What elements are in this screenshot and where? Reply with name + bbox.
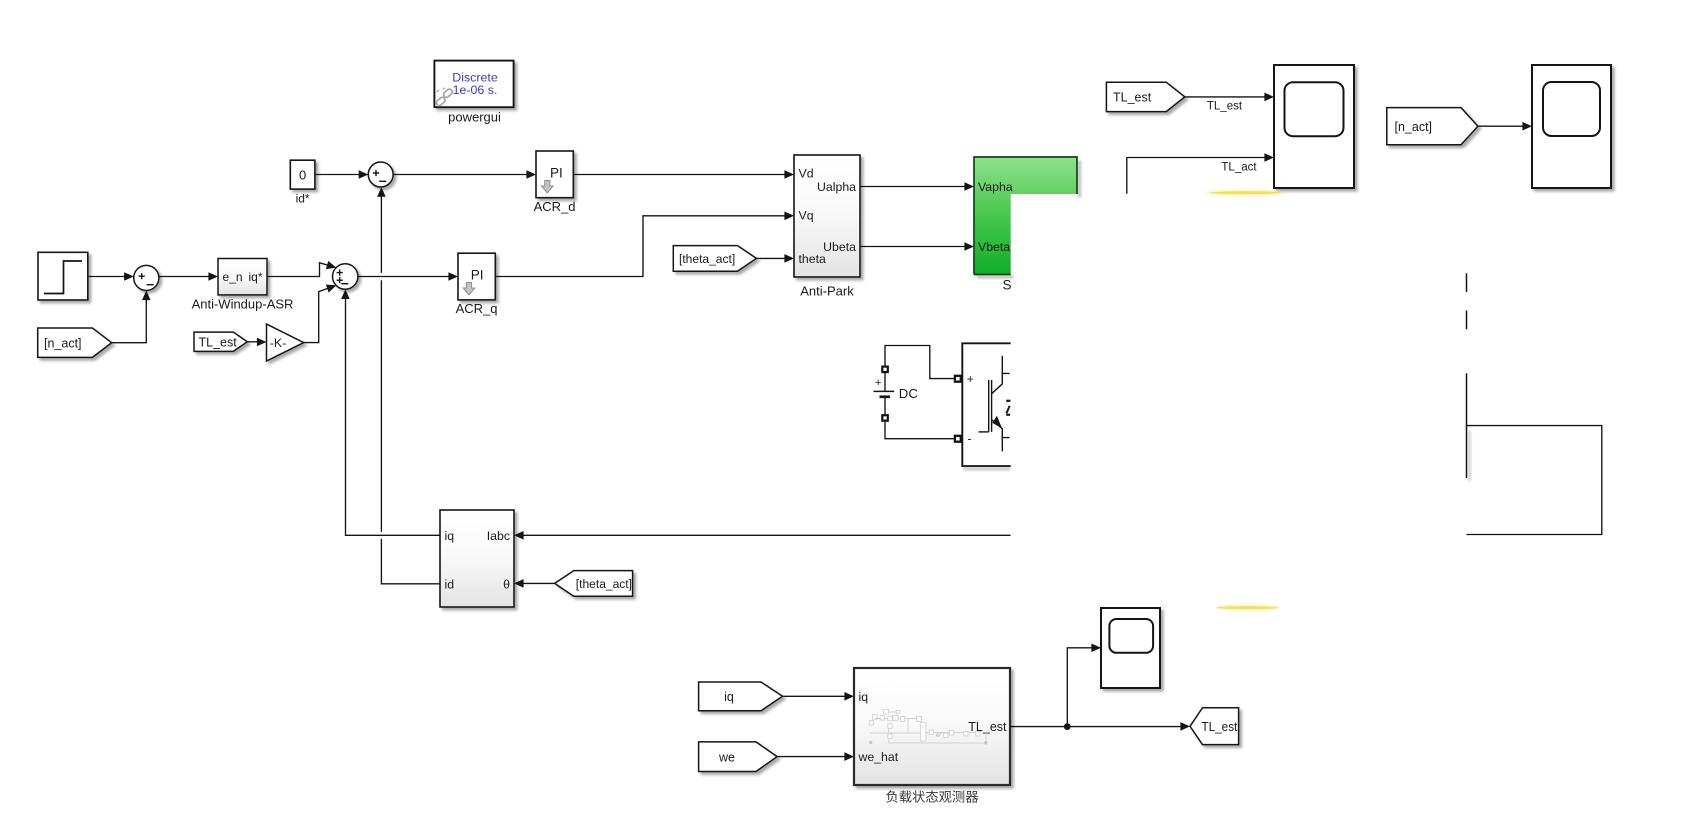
svg-text:theta: theta xyxy=(799,252,827,266)
wire observer TL_est out -> junction -> goto tag xyxy=(1010,726,1181,728)
svg-text:S: S xyxy=(1002,278,1011,293)
From tag TL_est (left) xyxy=(194,332,247,351)
svg-text:Vq: Vq xyxy=(799,208,814,222)
svg-text:TL_est: TL_est xyxy=(1113,91,1152,105)
svg-text:负载状态观测器: 负载状态观测器 xyxy=(885,790,978,805)
subsystem Anti-Park xyxy=(794,155,860,299)
wire sum2 -> ACR_q xyxy=(358,276,449,278)
wire step -> sum1 xyxy=(88,276,125,278)
wire [theta_act] -> Anti-Park theta xyxy=(756,257,785,259)
gain -K- xyxy=(267,324,304,361)
wire gain -> sum2 lower-left port xyxy=(304,287,331,342)
wire Iabc long feedback line (cut by redraw) xyxy=(523,534,1010,536)
svg-text:e_n: e_n xyxy=(223,270,243,284)
powergui block xyxy=(434,61,513,125)
svg-text:ACR_q: ACR_q xyxy=(456,301,498,316)
svg-text:id*: id* xyxy=(296,192,310,206)
svg-text:Iabc: Iabc xyxy=(487,529,510,543)
wire [theta_act] -> theta xyxy=(523,582,555,584)
svg-text:0: 0 xyxy=(299,167,306,182)
subsystem SVPWM (green, partially redrawn) xyxy=(974,157,1081,293)
inverter block (universal bridge, clipped by redraw) xyxy=(955,343,1011,470)
observer thumbnail mini-diagram xyxy=(869,710,987,745)
wire Anti-Park Ualpha -> SVPWM Vapha xyxy=(860,186,965,188)
wire 0 -> sum3 xyxy=(315,174,359,176)
wire sum3 -> ACR_d xyxy=(393,174,527,176)
scope block (n_act) xyxy=(1532,65,1611,188)
junction node xyxy=(1064,723,1071,730)
svg-text:Vbeta: Vbeta xyxy=(978,240,1010,254)
svg-text:[n_act]: [n_act] xyxy=(44,337,82,351)
svg-text:Anti-Park: Anti-Park xyxy=(800,284,854,299)
From tag we xyxy=(699,742,778,772)
From tag TL_est (top right) xyxy=(1106,82,1184,111)
DC voltage source xyxy=(874,346,954,439)
svg-text:-K-: -K- xyxy=(270,336,286,350)
svg-text:+: + xyxy=(967,372,974,386)
svg-text:θ: θ xyxy=(503,577,510,591)
svg-text:[n_act]: [n_act] xyxy=(1395,120,1433,134)
scope block (TL compare) xyxy=(1274,65,1354,188)
svg-text:PI: PI xyxy=(471,267,484,282)
wire TL_act -> scope1 port2 (cut below by redraw) xyxy=(1127,158,1265,194)
wire iq feedback -> sum2 bottom xyxy=(346,299,441,535)
svg-text:TL_est: TL_est xyxy=(199,335,238,349)
wire Anti-Windup-ASR -> sum2 upper-left port xyxy=(267,263,330,277)
subsystem load state observer xyxy=(854,668,1010,805)
From tag [n_act] xyxy=(38,328,112,357)
sum block sum1 (speed error) xyxy=(134,265,159,290)
svg-text:Vd: Vd xyxy=(799,166,814,180)
svg-text:1e-06 s.: 1e-06 s. xyxy=(453,83,498,97)
wire sum1 -> Anti-Windup-ASR xyxy=(159,276,209,278)
wire [n_act] -> sum1 bottom xyxy=(112,300,147,343)
svg-text:Vapha: Vapha xyxy=(978,180,1013,194)
svg-text:Anti-Windup-ASR: Anti-Windup-ASR xyxy=(192,297,294,312)
wire iq -> observer xyxy=(783,695,845,697)
wire id feedback -> sum3 bottom (with crossing gaps) xyxy=(381,196,440,584)
sum block sum3 (id error) xyxy=(368,162,393,187)
From tag [theta_act] (to Anti-Park) xyxy=(673,246,756,272)
yellow highlight artifact (bottom) xyxy=(1215,604,1281,612)
wire Anti-Park Ubeta -> SVPWM Vbeta xyxy=(860,246,965,248)
svg-text:[theta_act]: [theta_act] xyxy=(679,252,735,266)
svg-text:iq: iq xyxy=(445,529,455,543)
wire ACR_d -> Anti-Park Vd xyxy=(573,174,785,176)
From tag [theta_act] (flipped, to theta input) xyxy=(555,571,633,597)
Goto tag TL_est (bottom right) xyxy=(1190,708,1239,745)
svg-text:+: + xyxy=(875,377,881,389)
wire TL_est -> gain xyxy=(247,341,257,343)
scope block (TL_est bottom) xyxy=(1101,608,1160,688)
motor block remnant rectangle xyxy=(1467,426,1602,535)
measurement subsystem (iq/id from Iabc,theta; flipped) xyxy=(440,510,514,607)
svg-text:id: id xyxy=(445,577,455,591)
svg-text:TL_est: TL_est xyxy=(1202,719,1238,734)
shadow remnant of motor block edge xyxy=(1468,431,1471,481)
svg-text:iq*: iq* xyxy=(248,270,262,284)
svg-text:[theta_act]: [theta_act] xyxy=(576,577,632,591)
step block (speed reference) xyxy=(38,252,88,300)
yellow highlight artifact (top) xyxy=(1203,189,1289,197)
subsystem Anti-Windup-ASR xyxy=(192,259,294,312)
svg-text:Ubeta: Ubeta xyxy=(823,240,856,254)
PI controller ACR_d xyxy=(534,151,576,214)
wire branch junction -> scope3 xyxy=(1067,648,1092,727)
From tag iq xyxy=(699,682,783,711)
svg-text:-: - xyxy=(968,432,972,446)
PI controller ACR_q xyxy=(456,253,498,316)
svg-text:TL_est: TL_est xyxy=(1207,101,1243,113)
svg-text:powergui: powergui xyxy=(448,110,501,125)
svg-text:TL_act: TL_act xyxy=(1221,161,1257,173)
svg-text:iq: iq xyxy=(859,690,869,704)
svg-text:iq: iq xyxy=(724,690,734,704)
wire [n_act] -> scope2 xyxy=(1478,125,1523,127)
wire TL_est -> scope1 port1 xyxy=(1185,96,1265,98)
svg-text:Ualpha: Ualpha xyxy=(817,180,856,194)
wire ACR_q -> Anti-Park Vq xyxy=(495,216,785,277)
wire we -> observer xyxy=(777,756,845,758)
sum block sum2 (iq error, ++-) xyxy=(333,264,358,289)
wire remnants (partially redrawn vertical line) xyxy=(1466,273,1468,478)
svg-text:we_hat: we_hat xyxy=(858,750,899,764)
svg-text:ACR_d: ACR_d xyxy=(534,199,576,214)
constant 0 (id*) xyxy=(290,160,315,205)
svg-text:DC: DC xyxy=(899,386,919,401)
svg-text:PI: PI xyxy=(550,166,563,181)
From tag [n_act] (top right) xyxy=(1387,108,1478,145)
svg-text:we: we xyxy=(718,750,735,764)
